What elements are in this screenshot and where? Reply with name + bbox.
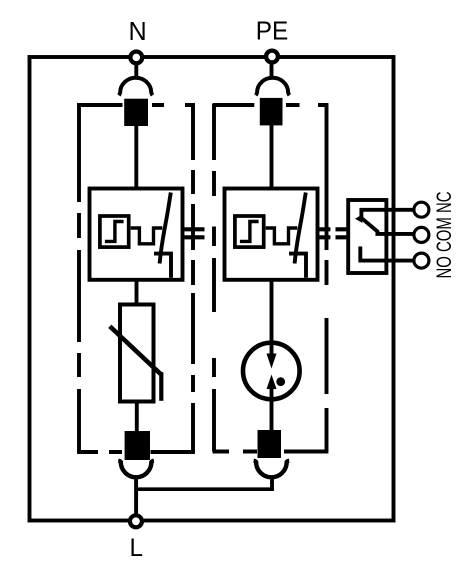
svg-text:L: L	[130, 534, 144, 562]
svg-text:PE: PE	[256, 18, 288, 46]
svg-text:N: N	[129, 16, 147, 46]
svg-text:NO COM NC: NO COM NC	[432, 192, 456, 279]
